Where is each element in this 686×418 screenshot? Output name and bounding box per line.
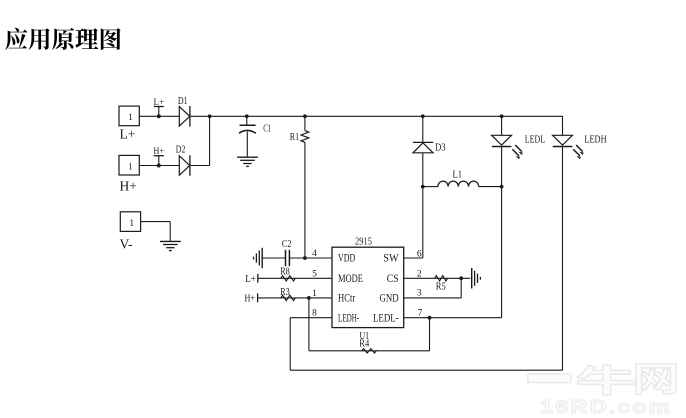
svg-text:16RD.com: 16RD.com <box>540 397 672 417</box>
svg-text:LEDH-: LEDH- <box>338 313 359 325</box>
svg-text:H+: H+ <box>245 293 256 304</box>
svg-text:8: 8 <box>312 308 317 318</box>
svg-text:CS: CS <box>387 273 399 285</box>
svg-text:H+: H+ <box>120 179 137 194</box>
svg-text:V-: V- <box>120 237 134 252</box>
svg-text:1: 1 <box>312 289 317 299</box>
svg-text:SW: SW <box>383 252 399 264</box>
svg-text:1: 1 <box>128 113 133 123</box>
svg-text:D3: D3 <box>435 143 446 154</box>
svg-text:2: 2 <box>417 269 422 279</box>
svg-text:5: 5 <box>312 270 317 280</box>
svg-text:LEDH: LEDH <box>584 135 606 146</box>
svg-text:L+: L+ <box>120 127 136 142</box>
svg-text:D1: D1 <box>178 96 188 107</box>
svg-text:L+: L+ <box>154 98 165 108</box>
svg-text:L1: L1 <box>453 169 463 180</box>
svg-text:R1: R1 <box>290 132 299 143</box>
svg-text:MODE: MODE <box>338 273 363 285</box>
svg-text:6: 6 <box>417 249 422 259</box>
svg-text:R4: R4 <box>359 338 369 349</box>
svg-text:GND: GND <box>380 293 399 305</box>
svg-text:R3: R3 <box>280 287 290 298</box>
svg-text:L+: L+ <box>245 274 256 285</box>
svg-text:1: 1 <box>129 219 134 229</box>
svg-text:3: 3 <box>417 288 422 298</box>
svg-text:H+: H+ <box>154 147 165 157</box>
svg-text:7: 7 <box>418 308 423 318</box>
svg-text:D2: D2 <box>176 145 186 156</box>
svg-text:C1: C1 <box>263 123 271 134</box>
svg-text:LEDL-: LEDL- <box>373 313 399 325</box>
svg-text:LEDL: LEDL <box>525 135 545 146</box>
svg-text:HCtr: HCtr <box>338 293 355 305</box>
svg-text:VDD: VDD <box>338 252 355 264</box>
svg-text:2915: 2915 <box>355 237 372 248</box>
svg-text:4: 4 <box>312 249 317 259</box>
svg-text:R8: R8 <box>280 267 290 278</box>
svg-text:1: 1 <box>128 162 133 172</box>
svg-text:R5: R5 <box>436 282 446 293</box>
svg-text:C2: C2 <box>282 239 292 250</box>
